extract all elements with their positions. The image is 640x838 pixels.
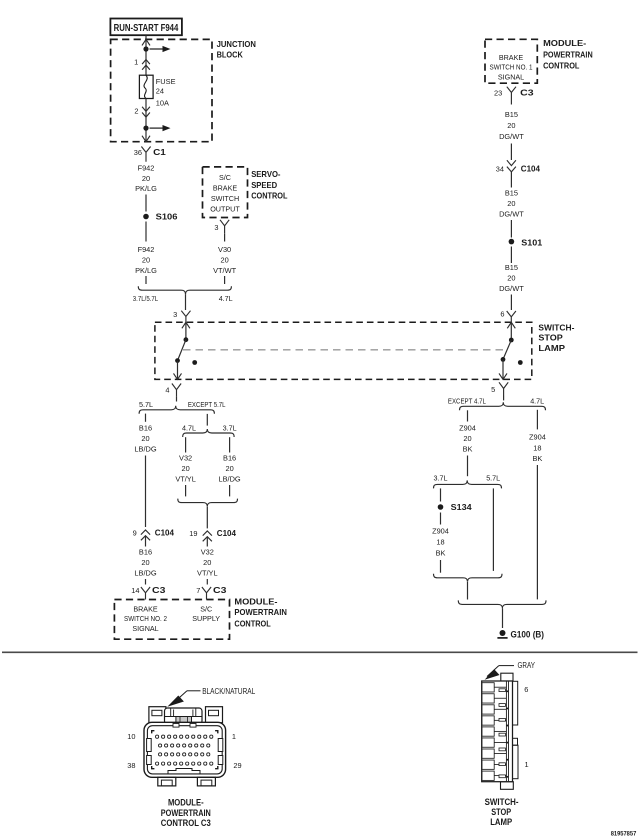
svg-text:20: 20 (203, 558, 211, 567)
svg-text:LAMP: LAMP (490, 817, 512, 827)
svg-text:BK: BK (436, 549, 446, 558)
svg-text:BRAKE: BRAKE (499, 53, 524, 62)
svg-text:C3: C3 (152, 585, 166, 595)
svg-text:V30: V30 (218, 245, 231, 254)
svg-text:1: 1 (134, 57, 138, 66)
svg-text:B16: B16 (139, 424, 152, 433)
svg-text:RUN-START F944: RUN-START F944 (114, 23, 179, 34)
svg-text:81957857: 81957857 (611, 832, 637, 838)
svg-text:CONTROL: CONTROL (251, 191, 287, 201)
svg-text:S134: S134 (451, 502, 472, 512)
svg-text:POWERTRAIN: POWERTRAIN (543, 49, 593, 59)
svg-text:SUPPLY: SUPPLY (192, 614, 220, 623)
svg-text:24: 24 (156, 86, 164, 95)
svg-text:3: 3 (214, 223, 218, 232)
svg-text:10A: 10A (156, 98, 169, 107)
svg-text:SIGNAL: SIGNAL (498, 72, 524, 81)
svg-text:BK: BK (463, 445, 473, 454)
svg-text:3.7L/5.7L: 3.7L/5.7L (133, 294, 158, 303)
svg-text:SWITCH-: SWITCH- (485, 797, 519, 807)
svg-text:S106: S106 (156, 211, 178, 221)
svg-text:SWITCH-: SWITCH- (538, 323, 574, 333)
svg-text:20: 20 (142, 174, 150, 183)
svg-text:CONTROL: CONTROL (543, 60, 579, 70)
svg-text:PK/LG: PK/LG (135, 184, 157, 193)
svg-text:C3: C3 (520, 87, 534, 97)
svg-text:20: 20 (220, 255, 228, 264)
svg-text:LB/DG: LB/DG (134, 444, 156, 453)
svg-text:20: 20 (507, 199, 515, 208)
svg-text:DG/WT: DG/WT (499, 209, 524, 218)
svg-text:1: 1 (232, 732, 236, 741)
svg-text:20: 20 (225, 464, 233, 473)
svg-text:FUSE: FUSE (156, 77, 176, 86)
svg-text:MODULE-: MODULE- (234, 596, 277, 606)
svg-text:5.7L: 5.7L (139, 400, 153, 409)
svg-text:C3: C3 (213, 585, 227, 595)
svg-text:38: 38 (127, 761, 135, 770)
svg-text:3: 3 (173, 310, 177, 319)
svg-text:18: 18 (533, 443, 541, 452)
svg-text:20: 20 (507, 273, 515, 282)
svg-text:C104: C104 (155, 527, 174, 537)
svg-text:23: 23 (494, 88, 502, 97)
svg-text:VT/YL: VT/YL (175, 475, 196, 484)
svg-text:OUTPUT: OUTPUT (210, 204, 240, 213)
svg-text:20: 20 (141, 434, 149, 443)
svg-text:C1: C1 (153, 147, 166, 157)
svg-text:6: 6 (524, 685, 528, 694)
svg-text:S/C: S/C (200, 604, 212, 613)
svg-text:MODULE-: MODULE- (543, 38, 586, 48)
svg-text:EXCEPT 4.7L: EXCEPT 4.7L (448, 396, 486, 405)
svg-text:B16: B16 (139, 548, 152, 557)
svg-text:7: 7 (196, 586, 200, 595)
svg-text:B16: B16 (223, 453, 236, 462)
svg-text:20: 20 (463, 434, 471, 443)
svg-text:DG/WT: DG/WT (499, 284, 524, 293)
svg-text:LB/DG: LB/DG (134, 569, 156, 578)
svg-text:BRAKE: BRAKE (133, 604, 158, 613)
svg-text:SPEED: SPEED (251, 180, 277, 190)
svg-text:MODULE-: MODULE- (168, 798, 204, 808)
svg-text:19: 19 (189, 529, 197, 538)
svg-text:V32: V32 (179, 453, 192, 462)
svg-text:CONTROL: CONTROL (234, 618, 270, 628)
svg-text:6: 6 (500, 310, 504, 319)
svg-text:18: 18 (436, 538, 444, 547)
svg-text:36: 36 (134, 148, 142, 157)
svg-text:C104: C104 (217, 528, 236, 538)
svg-text:9: 9 (133, 528, 137, 537)
svg-text:4.7L: 4.7L (219, 294, 233, 303)
svg-text:5: 5 (491, 385, 495, 394)
svg-text:GRAY: GRAY (518, 661, 536, 670)
svg-text:Z904: Z904 (459, 423, 476, 432)
svg-text:SWITCH: SWITCH (211, 194, 239, 203)
svg-text:G100 (B): G100 (B) (511, 630, 545, 640)
svg-text:S101: S101 (521, 237, 542, 247)
svg-text:SIGNAL: SIGNAL (132, 624, 158, 633)
svg-text:STOP: STOP (538, 333, 563, 343)
svg-text:B15: B15 (505, 110, 518, 119)
svg-text:VT/YL: VT/YL (197, 569, 218, 578)
svg-text:SERVO-: SERVO- (251, 169, 280, 179)
svg-text:C104: C104 (521, 164, 540, 174)
svg-text:DG/WT: DG/WT (499, 132, 524, 141)
svg-text:20: 20 (142, 255, 150, 264)
svg-text:POWERTRAIN: POWERTRAIN (161, 808, 211, 818)
svg-text:VT/WT: VT/WT (213, 266, 236, 275)
svg-text:PK/LG: PK/LG (135, 266, 157, 275)
svg-text:4: 4 (165, 386, 169, 395)
svg-text:SWITCH NO. 2: SWITCH NO. 2 (124, 614, 167, 623)
svg-text:BLOCK: BLOCK (217, 50, 244, 60)
svg-text:POWERTRAIN: POWERTRAIN (234, 607, 287, 617)
svg-text:F942: F942 (138, 164, 155, 173)
svg-text:4.7L: 4.7L (530, 396, 544, 405)
svg-text:Z904: Z904 (432, 526, 449, 535)
svg-text:20: 20 (181, 464, 189, 473)
svg-text:3.7L: 3.7L (223, 424, 237, 433)
svg-text:34: 34 (496, 165, 504, 174)
svg-text:14: 14 (131, 586, 139, 595)
svg-text:BK: BK (532, 454, 542, 463)
svg-text:LAMP: LAMP (538, 343, 565, 353)
svg-text:1: 1 (525, 760, 529, 769)
svg-text:B15: B15 (505, 263, 518, 272)
svg-text:Z904: Z904 (529, 433, 546, 442)
svg-text:V32: V32 (201, 548, 214, 557)
svg-text:BRAKE: BRAKE (213, 184, 238, 193)
svg-text:4.7L: 4.7L (182, 424, 196, 433)
svg-text:2: 2 (134, 106, 138, 115)
svg-text:S/C: S/C (219, 173, 231, 182)
svg-text:3.7L: 3.7L (434, 474, 448, 483)
svg-text:LB/DG: LB/DG (219, 475, 241, 484)
svg-text:EXCEPT 5.7L: EXCEPT 5.7L (188, 400, 226, 409)
svg-text:BLACK/NATURAL: BLACK/NATURAL (202, 687, 256, 696)
svg-text:10: 10 (127, 732, 135, 741)
svg-text:F942: F942 (138, 245, 155, 254)
svg-text:29: 29 (233, 761, 241, 770)
svg-text:STOP: STOP (491, 807, 511, 817)
svg-text:SWITCH NO. 1: SWITCH NO. 1 (490, 63, 533, 72)
svg-text:20: 20 (141, 558, 149, 567)
svg-text:20: 20 (507, 121, 515, 130)
svg-text:JUNCTION: JUNCTION (217, 39, 256, 49)
svg-text:B15: B15 (505, 188, 518, 197)
svg-text:CONTROL C3: CONTROL C3 (161, 818, 211, 828)
svg-text:5.7L: 5.7L (486, 474, 500, 483)
